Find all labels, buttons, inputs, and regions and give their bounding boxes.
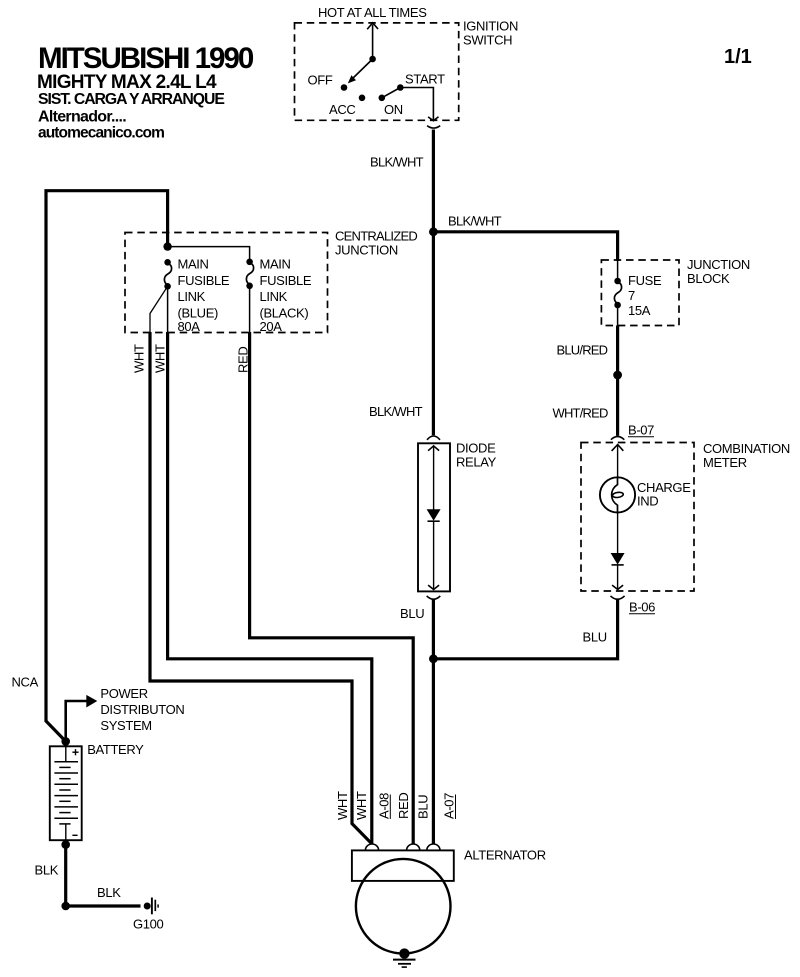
svg-text:20A: 20A bbox=[260, 319, 283, 334]
diode relay box bbox=[418, 443, 450, 591]
wire to G100 bbox=[66, 904, 141, 907]
title block bbox=[37, 42, 254, 142]
svg-text:WHT: WHT bbox=[152, 344, 167, 373]
wire START to output bbox=[400, 88, 433, 121]
svg-text:BLU: BLU bbox=[416, 795, 431, 819]
wire BLU relay to alternator bbox=[432, 600, 435, 845]
svg-text:Alternador....: Alternador.... bbox=[38, 109, 126, 126]
connector B-06 bbox=[611, 596, 625, 599]
svg-text:MAIN: MAIN bbox=[178, 257, 209, 272]
svg-text:A-07: A-07 bbox=[442, 793, 457, 819]
svg-text:FUSIBLE: FUSIBLE bbox=[260, 273, 312, 288]
svg-text:SIST. CARGA Y ARRANQUE: SIST. CARGA Y ARRANQUE bbox=[38, 91, 224, 108]
meter internal top arrow bbox=[612, 445, 624, 451]
ground under alternator bbox=[393, 959, 416, 961]
centralized junction dashed box bbox=[125, 233, 328, 333]
svg-text:CENTRALIZED: CENTRALIZED bbox=[335, 229, 417, 244]
alternator connector bumps bbox=[365, 844, 378, 850]
wire ON to START bbox=[382, 88, 401, 98]
wire WHT #2 bbox=[168, 332, 372, 845]
svg-text:automecanico.com: automecanico.com bbox=[38, 125, 164, 142]
svg-text:RED: RED bbox=[236, 347, 251, 373]
node battery negative dot bbox=[61, 840, 70, 849]
contact dot ON bbox=[379, 95, 386, 102]
connector B-07 bbox=[611, 437, 624, 440]
svg-text:BLOCK: BLOCK bbox=[687, 271, 730, 286]
wire RED bbox=[250, 332, 414, 845]
wire to power distribution system bbox=[66, 701, 87, 741]
wire battery to ground junction bbox=[64, 845, 67, 906]
node splice dot bbox=[613, 371, 622, 380]
svg-text:BLK/WHT: BLK/WHT bbox=[448, 214, 502, 229]
wire NCA into battery bbox=[46, 721, 66, 741]
svg-text:ACC: ACC bbox=[329, 102, 355, 117]
svg-text:DIODE: DIODE bbox=[456, 441, 496, 456]
node centralized junction dot bbox=[429, 227, 438, 236]
label MAIN FUSIBLE LINK (BLUE) 80A bbox=[178, 257, 230, 335]
node battery positive dot bbox=[61, 737, 70, 746]
switch wiper toward OFF bbox=[351, 59, 373, 81]
svg-text:START: START bbox=[405, 72, 445, 87]
contact dot ACC bbox=[359, 95, 366, 102]
wire B-06 to BLU junction bbox=[433, 600, 617, 659]
wire BLK/WHT ignition to centralized junction bbox=[432, 130, 435, 436]
charge indicator bulb bbox=[600, 477, 635, 512]
svg-text:FUSE: FUSE bbox=[628, 273, 662, 288]
diode in meter bbox=[612, 554, 624, 564]
svg-text:BLK: BLK bbox=[97, 885, 121, 900]
svg-text:80A: 80A bbox=[178, 319, 201, 334]
junction block dashed box bbox=[601, 260, 679, 326]
svg-text:BLK/WHT: BLK/WHT bbox=[369, 404, 423, 419]
svg-text:MAIN: MAIN bbox=[260, 257, 291, 272]
svg-text:POWER: POWER bbox=[100, 686, 147, 701]
bulb filament bbox=[612, 477, 618, 512]
svg-text:G100: G100 bbox=[133, 917, 164, 932]
svg-text:7: 7 bbox=[628, 288, 635, 303]
label MAIN FUSIBLE LINK (BLACK) 20A bbox=[260, 257, 312, 335]
wire bulb to diode bbox=[617, 512, 619, 554]
connector at diode relay top bbox=[427, 436, 440, 440]
wire junction to junction block bbox=[433, 232, 617, 261]
svg-text:JUNCTION: JUNCTION bbox=[687, 257, 750, 272]
battery B1 bbox=[50, 746, 82, 840]
wire diode to B-06 bbox=[617, 565, 619, 589]
svg-text:WHT: WHT bbox=[131, 344, 146, 373]
ignition switch internals bbox=[348, 23, 439, 121]
contact dot START bbox=[397, 84, 404, 91]
node ground junction dot bbox=[61, 902, 70, 911]
svg-text:DISTRIBUTON: DISTRIBUTON bbox=[100, 702, 184, 717]
svg-text:B-07: B-07 bbox=[628, 423, 654, 438]
svg-text:RELAY: RELAY bbox=[456, 455, 497, 470]
arrowhead power distribution bbox=[86, 695, 97, 708]
wire fuse to B-07 bbox=[616, 326, 619, 436]
svg-text:WHT: WHT bbox=[335, 791, 350, 820]
wire link1 branch diagonal bbox=[150, 286, 168, 332]
plus terminal mark bbox=[72, 751, 78, 753]
svg-text:WHT: WHT bbox=[354, 791, 369, 820]
svg-text:WHT/RED: WHT/RED bbox=[553, 406, 608, 421]
svg-text:NCA: NCA bbox=[12, 675, 39, 690]
fuse 7 15A bbox=[614, 261, 621, 326]
svg-text:BLK: BLK bbox=[35, 863, 59, 878]
svg-text:HOT AT ALL TIMES: HOT AT ALL TIMES bbox=[318, 5, 427, 20]
svg-text:ON: ON bbox=[384, 102, 403, 117]
arrowhead up to HOT bbox=[367, 23, 378, 30]
node BLU junction dot bbox=[429, 654, 438, 663]
svg-text:BATTERY: BATTERY bbox=[87, 742, 144, 757]
wire WHT #1 bbox=[150, 332, 372, 844]
relay internal top arrow bbox=[428, 446, 439, 451]
svg-text:FUSIBLE: FUSIBLE bbox=[178, 273, 230, 288]
svg-text:LINK: LINK bbox=[178, 289, 206, 304]
svg-text:SWITCH: SWITCH bbox=[463, 33, 512, 48]
contact dot OFF bbox=[341, 84, 348, 91]
svg-text:COMBINATION: COMBINATION bbox=[703, 441, 790, 456]
meter internal bottom arrow bbox=[612, 585, 623, 589]
alternator circle bbox=[356, 859, 451, 954]
svg-text:ALTERNATOR: ALTERNATOR bbox=[464, 848, 546, 863]
relay internal bottom arrow bbox=[428, 585, 439, 589]
node fusible link feed dot bbox=[163, 242, 171, 250]
main fusible link (BLUE) 80A bbox=[164, 259, 171, 290]
wire link1 down inside box bbox=[167, 286, 169, 332]
alternator case ground dot bbox=[399, 948, 409, 958]
svg-text:BLK/WHT: BLK/WHT bbox=[370, 155, 424, 170]
svg-text:A-08: A-08 bbox=[377, 793, 392, 819]
wire switch common up bbox=[372, 25, 374, 60]
svg-text:METER: METER bbox=[703, 455, 747, 470]
minus terminal mark bbox=[72, 834, 77, 836]
arrowhead down at switch output bbox=[428, 117, 438, 121]
connector at diode relay bottom bbox=[427, 596, 441, 599]
svg-text:IGNITION: IGNITION bbox=[463, 19, 518, 34]
wire battery to fusible link (top left loop) bbox=[46, 191, 168, 722]
wire to second fusible link bbox=[168, 247, 250, 262]
svg-text:1/1: 1/1 bbox=[724, 46, 752, 68]
ground G100 bbox=[144, 898, 158, 915]
svg-text:B-06: B-06 bbox=[629, 600, 655, 615]
connector at ignition output bbox=[427, 126, 440, 128]
svg-text:SYSTEM: SYSTEM bbox=[100, 718, 151, 733]
wire link2 down inside box bbox=[249, 286, 251, 333]
svg-text:BLU: BLU bbox=[400, 606, 424, 621]
ignition switch dashed box bbox=[295, 23, 459, 120]
svg-text:RED: RED bbox=[396, 793, 411, 819]
svg-text:MITSUBISHI 1990: MITSUBISHI 1990 bbox=[38, 42, 254, 75]
alternator box bbox=[352, 850, 454, 881]
svg-text:BLU/RED: BLU/RED bbox=[557, 343, 608, 358]
svg-text:15A: 15A bbox=[628, 303, 651, 318]
svg-text:MIGHTY MAX 2.4L L4: MIGHTY MAX 2.4L L4 bbox=[37, 72, 217, 93]
svg-text:BLU: BLU bbox=[583, 630, 607, 645]
svg-text:IND: IND bbox=[637, 494, 658, 509]
svg-text:LINK: LINK bbox=[260, 289, 288, 304]
switch pivot dot bbox=[369, 56, 376, 63]
svg-text:OFF: OFF bbox=[308, 73, 333, 88]
main fusible link (BLACK) 20A bbox=[246, 259, 253, 290]
diode in relay bbox=[428, 510, 440, 520]
combination meter dashed box bbox=[581, 443, 694, 592]
svg-text:JUNCTION: JUNCTION bbox=[335, 243, 398, 258]
